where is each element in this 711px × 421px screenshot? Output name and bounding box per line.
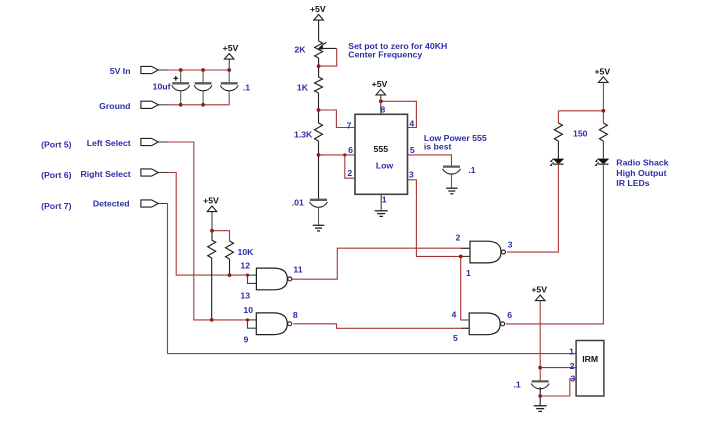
junction LED +5V tee [602, 109, 606, 113]
svg-text:+5V: +5V [372, 79, 388, 89]
junction 1.3K bottom [317, 153, 321, 157]
svg-text:1K: 1K [297, 83, 309, 93]
wire Detected run to IRM pin1 [168, 204, 577, 354]
wire 10K node to right resistor [212, 231, 230, 241]
svg-text:5: 5 [410, 145, 415, 155]
capacitor C1 10uf [180, 70, 182, 82]
wire gate D pin9 tie [248, 320, 257, 328]
svg-text:7: 7 [347, 121, 352, 131]
wire gate B output to right LED [506, 165, 604, 324]
junction gate D input [246, 318, 249, 321]
wire 555 pin1 lead [380, 194, 382, 211]
svg-text:+5V: +5V [531, 285, 547, 295]
wire 5V In rail [168, 69, 230, 71]
wire +5V arrow to 10K node [211, 212, 213, 231]
junction IRM pin2 node [538, 366, 542, 370]
junction 1K bottom [317, 108, 321, 112]
svg-text:.1: .1 [243, 82, 250, 92]
svg-text:+5V: +5V [203, 196, 219, 206]
svg-text:4: 4 [452, 310, 457, 320]
wire Detected stub [158, 203, 167, 205]
wire pin6 node to pin2 [345, 155, 355, 178]
wire node to pin6 [319, 154, 356, 156]
svg-text:IRM: IRM [582, 354, 598, 364]
capacitor C4 .01 [310, 199, 327, 201]
pot wiper arrow [320, 42, 326, 47]
wire left 150 top lead [557, 111, 559, 123]
svg-text:is best: is best [424, 142, 452, 152]
junction 10K top node [210, 229, 214, 233]
wire pot wiper loop [319, 48, 337, 66]
wire gate A pin1 to gate B pin4 [461, 256, 470, 320]
wire +5V to pin4 [381, 101, 417, 127]
svg-text:13: 13 [240, 291, 250, 301]
wire pin3 output [408, 180, 461, 257]
svg-text:+5V: +5V [594, 66, 610, 76]
svg-text:1.3K: 1.3K [294, 129, 313, 139]
wire pot wiper horizontal [320, 47, 337, 49]
wire 10K right bottom lead [229, 259, 231, 275]
junction 10K left bottom [210, 318, 214, 322]
wire IRM pin2 [540, 367, 576, 369]
wire +5V feed to rail [228, 59, 230, 70]
port Left Select [141, 138, 158, 145]
ground .1 pin5 cap [446, 187, 458, 189]
svg-text:2: 2 [570, 361, 575, 371]
junction pot bottom [317, 64, 321, 68]
junction bottom rail 1 [179, 103, 183, 107]
svg-text:5: 5 [453, 333, 458, 343]
svg-text:5V In: 5V In [110, 66, 131, 76]
wire gate C output to gate A pin2 [291, 248, 470, 279]
svg-text:10: 10 [243, 305, 253, 315]
svg-text:3: 3 [409, 170, 414, 180]
port Ground [141, 101, 158, 108]
svg-text:2K: 2K [294, 44, 306, 54]
resistor R4 10K left [208, 240, 216, 258]
nand gate U3D pins 10,9-8 [256, 313, 287, 335]
junction gate A pin1 [459, 255, 463, 259]
potentiometer R1 2K [315, 41, 323, 58]
op-amp U1 555 box [355, 114, 408, 194]
plus sign C1 [174, 76, 179, 81]
svg-text:10K: 10K [238, 247, 255, 257]
svg-text:10uf: 10uf [153, 82, 171, 92]
resistor R7 150 right [599, 123, 607, 141]
nand gate U3C pins 12,13-11 [256, 268, 287, 290]
svg-text:3: 3 [508, 240, 513, 250]
wire gate C input tie [248, 274, 257, 276]
svg-text:6: 6 [507, 310, 512, 320]
svg-text:3: 3 [570, 373, 575, 383]
capacitor C2 [202, 70, 204, 82]
svg-text:(Port 7): (Port 7) [41, 201, 72, 211]
wire gate D input tie [248, 319, 257, 321]
wire 10K left top lead [211, 231, 213, 240]
nand gate U3B pins 4,5-6 [469, 313, 500, 335]
wire IRM cap to ground [539, 387, 541, 406]
port Right Select [141, 169, 158, 176]
junction IRM cap bottom [538, 394, 542, 398]
wire Left Select stub [158, 141, 167, 143]
svg-text:(Port 5): (Port 5) [41, 139, 72, 149]
junction top rail 2 [201, 68, 205, 72]
svg-text:.1: .1 [468, 165, 475, 175]
svg-text:(Port 6): (Port 6) [41, 170, 72, 180]
junction gate C input [246, 274, 249, 277]
wire right 150 top lead [602, 111, 604, 123]
wire +5V to IRM cap [539, 301, 541, 381]
svg-text:11: 11 [293, 265, 302, 275]
svg-text:8: 8 [293, 310, 298, 320]
wire 1.3K to .01 cap [318, 141, 320, 199]
svg-text:6: 6 [348, 145, 353, 155]
junction pin6 node [343, 153, 346, 156]
resistor R5 10K right [226, 241, 234, 259]
svg-text:2: 2 [347, 168, 352, 178]
gate B input stubs [461, 320, 469, 328]
svg-text:150: 150 [573, 129, 588, 139]
wire pin5 to cap [408, 155, 452, 166]
wire 1K to 1.3K [318, 93, 320, 123]
capacitor C6 .1 IRM [532, 380, 549, 382]
port Detected [141, 200, 158, 207]
svg-text:Left Select: Left Select [87, 138, 131, 148]
capacitor C5 .1 pin5 [443, 165, 460, 167]
ground IRM cap [534, 405, 547, 407]
svg-text:Center Frequency: Center Frequency [348, 50, 422, 60]
ground 555 pin1 [375, 210, 388, 212]
svg-text:.01: .01 [292, 198, 304, 208]
wire +5V to pot [318, 20, 320, 41]
wire gate C pin13 tie [248, 275, 257, 283]
resistor R3 1.3K [315, 123, 323, 141]
svg-text:High Output: High Output [616, 168, 666, 178]
gate A input stubs [461, 248, 470, 256]
svg-text:2: 2 [456, 233, 461, 243]
wire 5V In stub [158, 69, 167, 71]
wire gate A output to left LED [507, 165, 559, 252]
wire IRM cap bottom to pin3 [540, 379, 576, 396]
wire pin8 stub [380, 95, 382, 114]
svg-text:4: 4 [409, 119, 414, 129]
svg-text:.1: .1 [514, 380, 521, 390]
svg-text:Detected: Detected [93, 199, 130, 209]
svg-text:1: 1 [382, 194, 387, 204]
wire left 150 to LED [557, 141, 559, 159]
wire gate D output to gate B pin5 [293, 324, 469, 329]
svg-text:IR LEDs: IR LEDs [616, 178, 649, 188]
wire Left Select run [168, 142, 248, 320]
wire pot to 1K [318, 58, 320, 77]
junction top rail 1 [179, 68, 183, 72]
resistor R6 150 left [554, 123, 562, 141]
svg-text:8: 8 [380, 105, 385, 115]
svg-text:+5V: +5V [223, 43, 239, 53]
svg-text:Low: Low [376, 160, 394, 170]
wire LED branch tee [558, 110, 603, 112]
capacitor C3 .1 [228, 70, 230, 82]
svg-text:555: 555 [374, 144, 389, 154]
svg-text:9: 9 [243, 335, 248, 345]
wire right 150 to LED [602, 141, 604, 159]
resistor R2 1K [315, 77, 323, 93]
wire cap3 bottom corner [228, 95, 230, 105]
junction bottom rail 2 [201, 103, 205, 107]
nand gate U3A pins 2,1-3 [470, 241, 501, 263]
junction top rail 3 [227, 68, 231, 72]
junction 10K right bottom [228, 273, 232, 277]
svg-text:Right Select: Right Select [80, 169, 130, 179]
wire Ground rail [168, 104, 230, 106]
wire Right Select stub [158, 172, 167, 174]
svg-text:1: 1 [569, 347, 574, 357]
wire node to pin7 [319, 110, 356, 128]
svg-text:12: 12 [240, 261, 250, 271]
wire right +5V lead [602, 82, 604, 110]
LED D2 right IR [599, 159, 609, 164]
IRM module box [576, 341, 604, 397]
port 5V In [141, 66, 158, 73]
svg-text:+5V: +5V [310, 4, 326, 14]
wire Right Select run [168, 173, 248, 276]
junction 555 +5V node [379, 99, 383, 103]
svg-text:1: 1 [466, 268, 471, 278]
svg-text:Ground: Ground [99, 101, 130, 111]
LED D1 left IR [554, 159, 564, 164]
wire 10K left bottom lead [211, 258, 213, 320]
wire Ground stub [158, 104, 167, 106]
ground .01 cap [313, 224, 325, 226]
svg-text:Radio Shack: Radio Shack [616, 158, 668, 168]
